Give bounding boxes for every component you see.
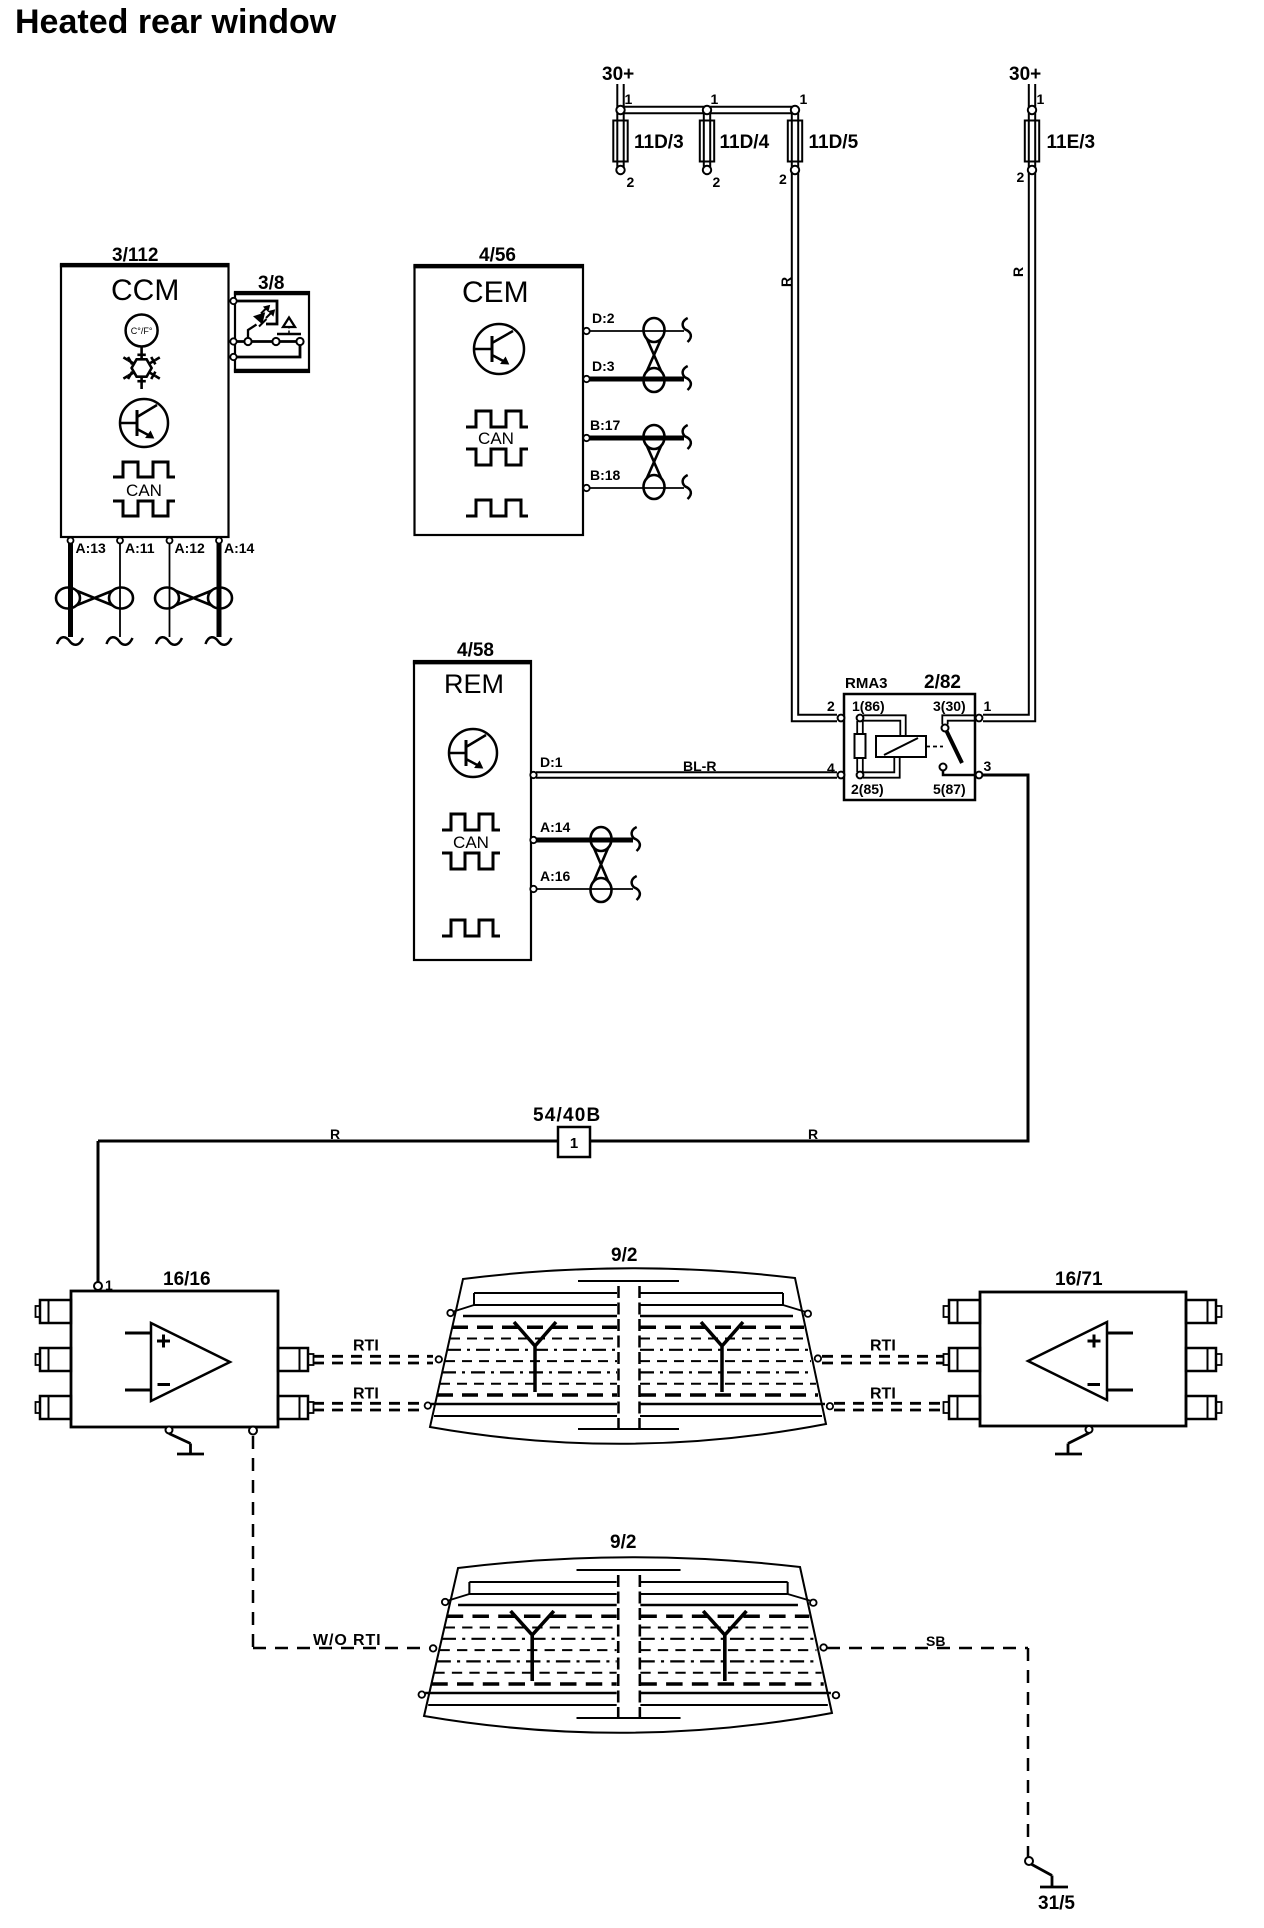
svg-text:A:14: A:14	[540, 819, 571, 835]
wire RTI upper right	[822, 1356, 944, 1363]
relay coil	[863, 715, 943, 777]
wire RTI upper left	[313, 1356, 433, 1363]
CCM pin A:14 wire	[206, 538, 255, 645]
CEM pin B:17 wire	[583, 417, 691, 449]
rear window 9/2 lower	[418, 1532, 839, 1733]
16/16 connector stub left 2	[36, 1348, 72, 1371]
connector 54/40B	[533, 1105, 601, 1157]
CAN symbol CCM	[113, 462, 175, 516]
16/16 connector stub left 1	[36, 1300, 72, 1323]
fuse 11E/3	[1017, 91, 1096, 185]
svg-text:B:17: B:17	[590, 417, 621, 433]
REM pin A:14 wire	[530, 819, 640, 851]
power feed 30+ left	[602, 64, 634, 110]
svg-text:R: R	[808, 1126, 818, 1142]
module CCM 3/112	[60, 245, 229, 537]
svg-text:R: R	[1010, 267, 1026, 277]
amplifier 16/16	[71, 1269, 278, 1427]
svg-text:1: 1	[625, 91, 633, 107]
svg-text:3(30): 3(30)	[933, 698, 966, 714]
16/71 connector stub right 2	[1186, 1348, 1222, 1371]
rear window 9/2 upper	[425, 1245, 834, 1444]
twisted pair A:14/A:16	[591, 827, 612, 902]
fuse 11D/5	[779, 91, 859, 187]
svg-text:31/5: 31/5	[1038, 1893, 1075, 1914]
svg-text:A:16: A:16	[540, 868, 571, 884]
svg-text:1: 1	[570, 1135, 578, 1152]
svg-text:A:13: A:13	[76, 540, 107, 556]
svg-text:16/71: 16/71	[1055, 1269, 1103, 1290]
transistor symbol CCM	[120, 399, 168, 447]
wire fuse 11E/3 to relay pin 1 (R)	[983, 174, 1035, 721]
16/71 connector stub left 3	[944, 1396, 981, 1419]
temperature C/F symbol	[126, 315, 158, 347]
svg-text:54/40B: 54/40B	[533, 1105, 601, 1126]
CEM pin B:18 wire	[583, 467, 691, 499]
relay RMA3 2/82	[844, 672, 975, 800]
ground 31/5	[1025, 1857, 1075, 1914]
svg-text:30+: 30+	[602, 64, 634, 85]
svg-text:D:2: D:2	[592, 310, 615, 326]
svg-text:Heated rear window: Heated rear window	[15, 3, 337, 41]
svg-text:4/56: 4/56	[479, 245, 516, 266]
svg-text:A:11: A:11	[125, 540, 155, 556]
amplifier 16/71	[980, 1269, 1186, 1426]
svg-text:B:18: B:18	[590, 467, 621, 483]
twisted pair A:13/A:11	[56, 588, 133, 609]
fuse 11D/3	[613, 91, 683, 190]
svg-text:D:3: D:3	[592, 358, 615, 374]
svg-text:R: R	[778, 277, 794, 287]
svg-text:RTI: RTI	[870, 1386, 896, 1403]
REM pin A:16 wire	[530, 868, 640, 900]
svg-text:1: 1	[105, 1277, 113, 1293]
relay coil resistor	[855, 721, 866, 772]
svg-text:CCM: CCM	[111, 274, 179, 307]
wire W/O RTI	[253, 1436, 429, 1649]
svg-text:3/112: 3/112	[112, 245, 159, 266]
16/71 connector stub left 2	[944, 1348, 981, 1371]
svg-text:BL-R: BL-R	[683, 758, 716, 774]
svg-text:9/2: 9/2	[611, 1245, 637, 1266]
svg-text:9/2: 9/2	[610, 1532, 636, 1553]
wire fuse 11D/5 to relay pin 2 (R)	[778, 174, 837, 721]
16/16 ground pin	[166, 1427, 205, 1455]
16/16 output pin	[249, 1427, 257, 1435]
svg-text:11D/5: 11D/5	[809, 132, 859, 153]
svg-text:11D/4: 11D/4	[720, 132, 770, 153]
svg-text:3: 3	[984, 758, 992, 774]
op-amp 16/16	[125, 1323, 230, 1401]
16/16 connector stub right 1	[278, 1348, 314, 1371]
16/71 connector stub left 1	[944, 1300, 981, 1323]
wire RTI lower left	[313, 1403, 422, 1410]
svg-text:5(87): 5(87)	[933, 781, 966, 797]
svg-text:RTI: RTI	[353, 1338, 379, 1355]
CEM pin D:3 wire	[583, 358, 691, 390]
svg-text:4/58: 4/58	[457, 640, 494, 661]
svg-text:30+: 30+	[1009, 64, 1041, 85]
svg-text:CAN: CAN	[453, 833, 489, 852]
bus wire 30+ to fuses	[620, 107, 797, 113]
svg-text:A:14: A:14	[224, 540, 255, 556]
CAN symbol CEM	[466, 411, 528, 465]
svg-text:CAN: CAN	[478, 429, 514, 448]
svg-text:A:12: A:12	[175, 540, 206, 556]
power feed 30+ right	[1009, 64, 1041, 110]
svg-text:CAN: CAN	[126, 481, 162, 500]
svg-text:SB: SB	[926, 1633, 945, 1649]
16/16 connector stub right 2	[278, 1396, 314, 1419]
svg-text:D:1: D:1	[540, 754, 563, 770]
wire SB	[827, 1633, 1028, 1857]
svg-text:16/16: 16/16	[163, 1269, 211, 1290]
svg-text:2: 2	[779, 171, 787, 187]
fuse 11D/4	[700, 91, 770, 190]
CAN symbol REM	[442, 814, 500, 869]
relay switch	[940, 715, 977, 775]
svg-text:11E/3: 11E/3	[1047, 132, 1096, 153]
svg-text:2: 2	[713, 174, 721, 190]
svg-text:CEM: CEM	[462, 276, 529, 309]
svg-text:2/82: 2/82	[924, 672, 961, 693]
svg-text:REM: REM	[444, 669, 504, 699]
CCM pin A:12 wire	[156, 538, 205, 645]
svg-text:11D/3: 11D/3	[634, 132, 684, 153]
transistor symbol REM	[449, 729, 497, 777]
wire REM D:1 to relay pin 4 (BL-R)	[530, 754, 837, 778]
wire relay pin 3 to amplifier 16/16 (R)	[98, 775, 1028, 1282]
16/16 connector stub left 3	[36, 1396, 72, 1419]
CEM pin D:2 wire	[583, 310, 691, 342]
transistor symbol CEM	[474, 324, 524, 374]
module REM 4/58	[413, 640, 531, 960]
relay terminals and pin labels	[827, 698, 992, 797]
svg-text:2: 2	[627, 174, 635, 190]
16/71 ground pin	[1055, 1426, 1093, 1454]
svg-text:RTI: RTI	[870, 1338, 896, 1355]
svg-text:R: R	[330, 1126, 340, 1142]
snowflake symbol	[123, 347, 159, 389]
svg-text:1: 1	[984, 698, 992, 714]
svg-text:RMA3: RMA3	[845, 675, 888, 692]
16/71 connector stub right 3	[1186, 1396, 1222, 1419]
twisted pair B:17/B:18	[644, 425, 665, 499]
module CEM 4/56	[413, 245, 583, 535]
twisted pair A:12/A:14	[155, 588, 232, 609]
switch unit 3/8	[229, 273, 310, 372]
switch 3/8 internal LED	[237, 301, 277, 338]
svg-text:C°/F°: C°/F°	[131, 326, 153, 336]
switch 3/8 contacts and push button	[230, 298, 303, 360]
svg-text:2: 2	[1017, 169, 1025, 185]
CCM pin A:11 wire	[107, 538, 155, 645]
svg-text:1: 1	[711, 91, 719, 107]
op-amp 16/71	[1028, 1322, 1133, 1400]
svg-text:2(85): 2(85)	[851, 781, 884, 797]
square wave symbol CEM bottom	[466, 500, 528, 516]
CCM pin A:13 wire	[57, 538, 106, 645]
svg-text:1: 1	[800, 91, 808, 107]
svg-text:RTI: RTI	[353, 1386, 379, 1403]
svg-text:4: 4	[827, 760, 835, 776]
square wave symbol REM bottom	[442, 920, 500, 936]
svg-text:2: 2	[827, 698, 835, 714]
16/71 connector stub right 1	[1186, 1300, 1222, 1323]
wire RTI lower right	[834, 1403, 944, 1410]
svg-text:1(86): 1(86)	[852, 698, 885, 714]
svg-text:1: 1	[1037, 91, 1045, 107]
twisted pair D:2/D:3	[644, 318, 665, 392]
svg-text:W/O RTI: W/O RTI	[313, 1632, 382, 1649]
svg-text:3/8: 3/8	[258, 273, 284, 294]
